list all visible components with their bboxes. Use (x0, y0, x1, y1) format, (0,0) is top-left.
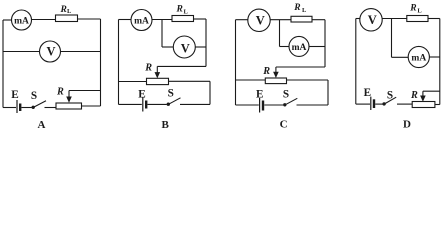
wire slider to right edge C (276, 66, 325, 68)
svg-text:C: C (280, 119, 288, 131)
wire voltmeter to RL C (270, 19, 291, 21)
switch S A (32, 101, 47, 109)
wire right edge to rheostat D (435, 104, 440, 106)
wire slider to right edge A (69, 90, 101, 92)
wire top-left to voltmeter C (236, 19, 248, 21)
resistor RL D (407, 16, 428, 22)
wire battery left C (236, 104, 259, 106)
rheostat slider arrow A (66, 91, 72, 103)
svg-text:R: R (60, 5, 67, 15)
wire battery left A (3, 107, 16, 109)
resistor RL B (172, 16, 194, 22)
svg-text:A: A (38, 119, 46, 131)
svg-text:L: L (302, 7, 307, 14)
wire top-left to ammeter B (119, 19, 132, 21)
wire battery to switch B (148, 103, 167, 105)
ammeter mA A (12, 10, 32, 30)
svg-text:V: V (368, 13, 377, 27)
svg-text:D: D (403, 119, 411, 131)
wire voltmeter branch left A (3, 51, 40, 53)
wire battery to switch A (22, 107, 32, 109)
wire left edge A (2, 20, 4, 108)
voltmeter V A (40, 41, 61, 62)
wire drop to ammeter D (392, 56, 409, 58)
voltmeter V C (248, 9, 270, 31)
wire voltmeter branch drop B (161, 20, 163, 48)
ammeter mA C (289, 36, 309, 56)
wire RL to top-right corner D (428, 18, 440, 20)
svg-text:E: E (364, 87, 371, 99)
svg-text:R: R (56, 87, 64, 98)
wire voltmeter branch right A (61, 51, 101, 53)
battery E C (260, 98, 263, 113)
wire ammeter to RL A (32, 19, 56, 21)
wire battery left D (356, 103, 370, 105)
wire middle left to rheostat B (119, 81, 147, 83)
battery E D (371, 97, 374, 110)
wire right edge upper C (324, 20, 326, 67)
wire RL to top-right corner A (78, 18, 101, 20)
svg-text:L: L (67, 8, 72, 15)
svg-text:R: R (176, 5, 183, 15)
wire voltmeter to RL D (382, 18, 407, 20)
battery E B (143, 98, 146, 112)
svg-text:V: V (46, 45, 55, 59)
svg-text:R: R (410, 90, 418, 101)
wire right edge to rheostat A (82, 105, 101, 107)
svg-text:L: L (184, 9, 189, 16)
wire right edge D (439, 19, 441, 105)
wire RL to top-right corner B (194, 18, 207, 20)
svg-text:E: E (138, 89, 145, 101)
wire ammeter to right edge C (309, 46, 325, 48)
wire drop to voltmeter B (162, 46, 173, 48)
wire left edge B (118, 20, 120, 105)
rheostat slider arrow C (273, 67, 279, 78)
wire slider to right edge B (157, 65, 206, 67)
wire switch to right B (180, 103, 210, 105)
wire battery to switch C (264, 104, 283, 106)
battery E A (17, 100, 20, 113)
wire right edge lower C (327, 80, 329, 105)
wire battery left B (119, 103, 142, 105)
svg-text:R: R (262, 66, 270, 77)
ammeter mA B (131, 10, 152, 31)
wire drop to ammeter C (280, 46, 290, 48)
wire ammeter to right edge D (429, 56, 439, 58)
wire ammeter branch drop C (279, 20, 281, 47)
wire left edge D (355, 19, 357, 105)
svg-text:R: R (144, 63, 152, 74)
switch S B (167, 98, 181, 106)
wire right edge lower B (209, 81, 211, 104)
svg-text:mA: mA (14, 17, 29, 27)
voltmeter V D (360, 9, 382, 31)
svg-text:mA: mA (134, 17, 149, 27)
svg-text:E: E (11, 89, 18, 101)
wire ammeter to RL B (152, 19, 172, 21)
wire switch to rheostat A (45, 107, 57, 109)
wire battery to switch D (375, 103, 382, 105)
wire top-left to voltmeter D (356, 18, 360, 20)
wire rheostat to lower right edge C (287, 79, 329, 81)
rheostat slider arrow B (155, 66, 161, 78)
svg-text:mA: mA (292, 43, 307, 53)
svg-text:V: V (256, 13, 265, 27)
wire switch to rheostat D (397, 103, 412, 105)
ammeter mA D (408, 46, 429, 67)
wire middle left to rheostat C (236, 79, 266, 81)
wire right edge upper B (205, 19, 207, 66)
wire ammeter branch drop D (391, 19, 393, 58)
svg-text:R: R (409, 4, 416, 14)
wire slider to right edge D (423, 90, 440, 92)
wire rheostat to lower right edge B (169, 80, 211, 82)
voltmeter V B (173, 36, 195, 58)
svg-text:R: R (293, 3, 300, 13)
rheostat R box C (265, 78, 286, 84)
svg-text:mA: mA (411, 54, 426, 64)
svg-text:S: S (168, 88, 174, 100)
wire RL to top-right corner C (312, 19, 325, 21)
resistor RL C (291, 16, 312, 22)
switch S D (382, 97, 396, 105)
svg-text:L: L (417, 8, 422, 15)
rheostat R box D (412, 102, 435, 108)
wire right edge A (100, 19, 102, 106)
wire voltmeter to right edge B (195, 46, 206, 48)
rheostat R box B (147, 78, 169, 84)
resistor RL A (56, 15, 78, 22)
svg-text:S: S (283, 88, 289, 100)
rheostat R box A (56, 103, 82, 109)
switch S C (283, 98, 297, 106)
wire left edge C (235, 20, 237, 105)
svg-text:B: B (162, 119, 170, 131)
wire top-left to ammeter A (3, 19, 12, 21)
rheostat slider arrow D (420, 91, 426, 102)
wire switch to right C (297, 104, 329, 106)
svg-text:V: V (181, 42, 190, 56)
svg-text:S: S (31, 90, 37, 102)
